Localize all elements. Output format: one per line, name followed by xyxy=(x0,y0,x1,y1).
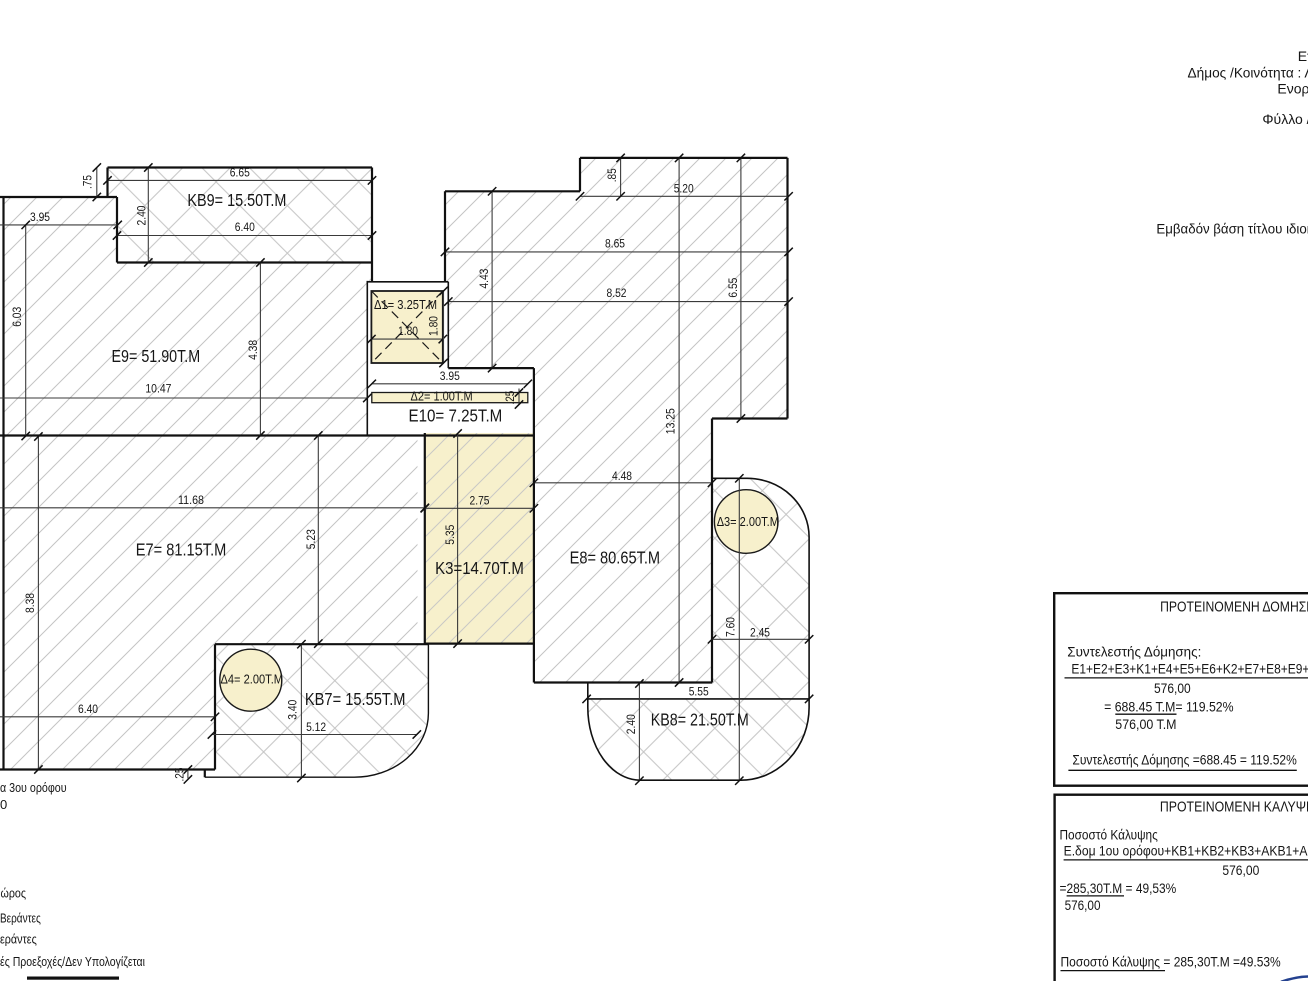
svg-text:ΠΡΟΤΕΙΝΟΜΕΝΗ ΚΑΛΥΨΗ: ΠΡΟΤΕΙΝΟΜΕΝΗ ΚΑΛΥΨΗ xyxy=(1160,799,1308,816)
balcony KB8 and right balcony hatch xyxy=(588,478,809,780)
svg-text:3.40: 3.40 xyxy=(288,700,300,720)
svg-text:8.52: 8.52 xyxy=(607,288,627,300)
dim 8.65 E8 xyxy=(441,238,793,256)
svg-text:E8= 80.65T.M: E8= 80.65T.M xyxy=(570,548,661,568)
svg-text:2.40: 2.40 xyxy=(626,714,638,734)
svg-text:Συντελεστής Δόμησης =688.45 =: Συντελεστής Δόμησης =688.45 = 119.52% xyxy=(1072,752,1296,768)
dim 1.80 D1 horizontal xyxy=(367,326,447,343)
svg-text:Ε1+Ε2+Ε3+Κ1+Ε4+Ε5+Ε6+Κ2+Ε7+Ε8+: Ε1+Ε2+Ε3+Κ1+Ε4+Ε5+Ε6+Κ2+Ε7+Ε8+Ε9+ xyxy=(1071,661,1308,677)
svg-text:α 3ου ορόφου: α 3ου ορόφου xyxy=(0,780,67,795)
balcony KB9 hatch xyxy=(108,168,373,263)
dim 3.95 E10 xyxy=(368,371,532,388)
dim 2.45 balcony xyxy=(708,628,814,644)
dim 7.60 balcony xyxy=(725,474,743,785)
blue stamp arc xyxy=(1281,976,1308,981)
dim 8.52 E8 xyxy=(444,288,793,306)
svg-text:4.38: 4.38 xyxy=(248,340,260,360)
svg-text:6.65: 6.65 xyxy=(230,168,250,180)
wall D1 surround box and E10 left xyxy=(367,281,448,436)
veranda K3 hatch xyxy=(425,433,534,644)
svg-text:Εμβαδόν βάση τίτλου ιδιοκ: Εμβαδόν βάση τίτλου ιδιοκ xyxy=(1156,221,1308,237)
wall E9 right / D1 box xyxy=(371,263,373,282)
dim 4.43 E8 left xyxy=(479,187,497,372)
dim 6.40 KB9 xyxy=(113,222,376,240)
svg-text:.75: .75 xyxy=(83,175,95,189)
svg-text:Συντελεστής Δόμησης:: Συντελεστής Δόμησης: xyxy=(1067,644,1201,660)
area E7 hatch xyxy=(4,436,418,770)
svg-text:3.95: 3.95 xyxy=(30,212,50,224)
svg-text:E9= 51.90T.M: E9= 51.90T.M xyxy=(112,346,201,366)
svg-text:Ενορί: Ενορί xyxy=(1277,81,1308,97)
svg-text:7.60: 7.60 xyxy=(725,617,737,637)
svg-text:Ετ: Ετ xyxy=(1298,48,1308,64)
wall balcony right rounded xyxy=(588,478,809,780)
dim 11.68 E7 xyxy=(0,495,429,512)
svg-text:576,00: 576,00 xyxy=(1222,862,1259,878)
svg-text:Δ3= 2.00Τ.Μ: Δ3= 2.00Τ.Μ xyxy=(717,515,779,529)
svg-text:576,00 Τ.Μ: 576,00 Τ.Μ xyxy=(1115,716,1176,732)
skylight D1 yellow box xyxy=(371,291,442,363)
svg-text:1.80: 1.80 xyxy=(428,316,440,336)
svg-text:2.75: 2.75 xyxy=(470,496,490,508)
dim 8.38 E7 left xyxy=(25,432,43,773)
svg-text:5.20: 5.20 xyxy=(674,184,694,196)
svg-text:KB7= 15.55T.M: KB7= 15.55T.M xyxy=(305,689,406,709)
dim 5.35 K3 xyxy=(445,429,462,648)
dim .85 E8 notch xyxy=(607,154,625,201)
svg-text:8.38: 8.38 xyxy=(25,593,37,613)
dim 2.40 KB8 xyxy=(626,679,644,785)
dim 13.25 E8 xyxy=(665,154,683,687)
bottom-left partial table border xyxy=(27,977,119,980)
dim .25 D2 xyxy=(505,388,523,408)
svg-text:6.40: 6.40 xyxy=(235,222,255,234)
dim 4.38 E9 xyxy=(248,258,265,439)
dim 1.80 D1 vertical xyxy=(428,287,447,367)
dim .75 KB9 left xyxy=(83,163,102,201)
svg-text:8.65: 8.65 xyxy=(605,238,625,250)
svg-text:13.25: 13.25 xyxy=(665,408,677,434)
wall KB8 top / 5.55 line xyxy=(588,698,809,700)
svg-text:5.55: 5.55 xyxy=(689,687,709,699)
dim 6.40 E7 bottom xyxy=(0,704,219,721)
dim 5.23 E7 xyxy=(306,431,323,648)
svg-text:0: 0 xyxy=(0,797,7,812)
svg-text:Βεράντες: Βεράντες xyxy=(0,911,41,926)
svg-text:4.43: 4.43 xyxy=(479,269,491,289)
dim 6.65 KB9 xyxy=(103,168,376,185)
svg-text:2.45: 2.45 xyxy=(750,628,770,640)
svg-text:6.55: 6.55 xyxy=(728,278,740,298)
svg-text:ΠΡΟΤΕΙΝΟΜΕΝΗ ΔΟΜΗΣΗ: ΠΡΟΤΕΙΝΟΜΕΝΗ ΔΟΜΗΣΗ xyxy=(1160,598,1308,615)
svg-text:5.23: 5.23 xyxy=(306,529,318,549)
svg-text:Δ1= 3.25Τ.Μ: Δ1= 3.25Τ.Μ xyxy=(374,298,437,312)
wall E9 top xyxy=(0,168,372,263)
dim 4.48 E8 xyxy=(530,471,717,487)
svg-text:Δ4= 2.00Τ.Μ: Δ4= 2.00Τ.Μ xyxy=(221,673,284,687)
dim 5.20 E8 top xyxy=(576,184,793,201)
area E9 hatch xyxy=(4,197,372,436)
wall E10 bottom step xyxy=(448,367,534,369)
svg-text:ές Προεξοχές/Δεν Υπολογίζεται: ές Προεξοχές/Δεν Υπολογίζεται xyxy=(0,954,145,969)
wall E9/E7 boundary xyxy=(0,434,534,436)
svg-text:.85: .85 xyxy=(607,168,619,182)
dim 3.40 KB7 xyxy=(288,640,306,782)
svg-text:E7= 81.15T.M: E7= 81.15T.M xyxy=(136,540,227,560)
svg-text:K3=14.70T.M: K3=14.70T.M xyxy=(435,558,524,578)
svg-text:E10= 7.25T.M: E10= 7.25T.M xyxy=(409,406,503,426)
dim .25 E7 step xyxy=(174,765,192,783)
svg-text:=285,30Τ.Μ = 49,53%: =285,30Τ.Μ = 49,53% xyxy=(1060,880,1177,896)
circle D3 xyxy=(714,490,778,554)
dim 10.47 E9 xyxy=(0,384,372,403)
svg-text:1.80: 1.80 xyxy=(398,326,418,338)
dim 6.55 E8 xyxy=(728,154,745,423)
svg-text:6.40: 6.40 xyxy=(78,704,98,716)
svg-text:Ποσοστό Κάλυψης = 285,30Τ.Μ =4: Ποσοστό Κάλυψης = 285,30Τ.Μ =49.53% xyxy=(1061,954,1281,970)
svg-text:5.35: 5.35 xyxy=(445,525,457,545)
svg-text:10.47: 10.47 xyxy=(145,384,171,396)
wall K3 xyxy=(425,368,534,682)
svg-text:.25: .25 xyxy=(505,391,517,405)
svg-text:ώρος: ώρος xyxy=(1,886,27,901)
svg-text:KB8= 21.50T.M: KB8= 21.50T.M xyxy=(651,710,749,730)
svg-text:5.12: 5.12 xyxy=(306,722,326,734)
svg-text:KB9= 15.50T.M: KB9= 15.50T.M xyxy=(187,190,286,210)
wall E7 bottom and KB7 xyxy=(0,644,428,777)
wall E9 E7 left outer xyxy=(2,197,4,770)
svg-text:εράντες: εράντες xyxy=(0,931,37,946)
proposed building-ratio box xyxy=(1054,593,1308,786)
dim 2.75 K3 xyxy=(421,496,538,513)
svg-text:4.48: 4.48 xyxy=(612,471,632,483)
dim 5.55 KB8 label and ticks xyxy=(582,687,813,704)
svg-text:11.68: 11.68 xyxy=(178,495,204,507)
svg-text:Ποσοστό Κάλυψης: Ποσοστό Κάλυψης xyxy=(1060,826,1159,842)
svg-text:Δήμος /Κοινότητα : Λ: Δήμος /Κοινότητα : Λ xyxy=(1188,65,1308,81)
balcony KB7 hatch xyxy=(205,644,429,777)
svg-text:6.03: 6.03 xyxy=(12,307,24,327)
proposed coverage box xyxy=(1055,795,1308,981)
dim 6.03 E9 left xyxy=(12,221,30,441)
dim 2.40 KB9 xyxy=(137,163,153,266)
svg-text:= 688.45 Τ.Μ= 119.52%: = 688.45 Τ.Μ= 119.52% xyxy=(1104,699,1234,715)
svg-text:.25: .25 xyxy=(174,768,186,782)
dim 3.95 top-left xyxy=(0,212,122,229)
svg-text:576,00: 576,00 xyxy=(1065,897,1101,913)
wall E8 outline xyxy=(445,158,788,683)
wall KB7 rounded edge xyxy=(205,644,429,777)
svg-text:Δ2= 1.00Τ.Μ: Δ2= 1.00Τ.Μ xyxy=(411,389,473,403)
svg-text:576,00: 576,00 xyxy=(1154,680,1191,696)
svg-text:3.95: 3.95 xyxy=(440,371,460,383)
canopy D2 yellow strip xyxy=(372,393,528,403)
svg-text:2.40: 2.40 xyxy=(137,206,149,226)
area E8 hatch xyxy=(445,158,788,683)
dim 5.12 KB7 xyxy=(208,722,421,739)
svg-text:Ε.δομ 1ου ορόφου+ΚΒ1+ΚΒ2+ΚΒ3+Α: Ε.δομ 1ου ορόφου+ΚΒ1+ΚΒ2+ΚΒ3+ΑΚΒ1+ΑΚ xyxy=(1064,843,1308,859)
svg-text:Φύλλο /: Φύλλο / xyxy=(1262,111,1308,127)
veranda K3 yellow xyxy=(425,433,534,644)
circle D4 xyxy=(220,649,282,711)
